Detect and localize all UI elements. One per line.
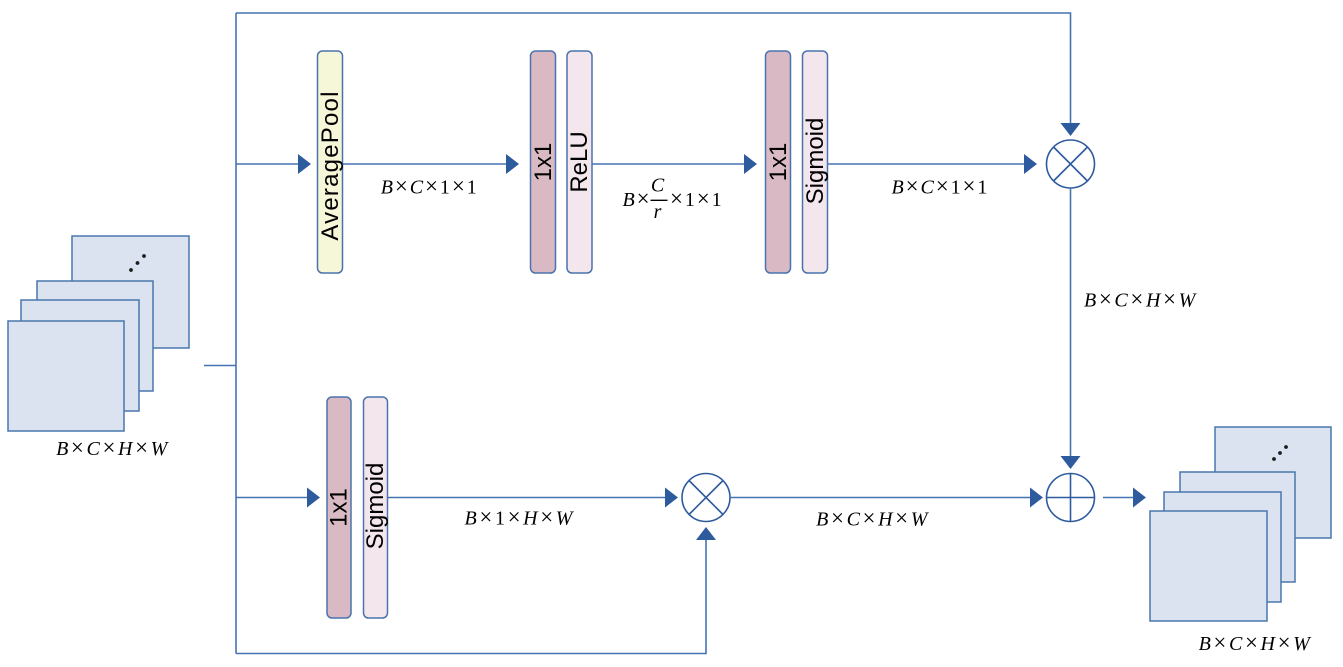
arrowhead into AveragePool <box>298 154 311 174</box>
arrowhead into bottom multiply <box>665 488 678 508</box>
output feature map sheet 3 <box>1164 492 1281 602</box>
svg-text:Sigmoid: Sigmoid <box>802 118 829 205</box>
output stack dots <box>1272 445 1288 461</box>
wire: bottom branch to spatial conv <box>236 497 307 499</box>
svg-text:1x1: 1x1 <box>765 143 792 182</box>
svg-text:B×C×1×1: B×C×1×1 <box>381 174 479 199</box>
svg-text:B×C×1×1: B×C×1×1 <box>891 174 989 199</box>
Sigmoid block (bottom) <box>364 397 388 618</box>
ReLU block <box>567 51 592 273</box>
add node <box>1047 474 1095 522</box>
input feature map front sheet <box>8 321 124 431</box>
svg-text:×1×1: ×1×1 <box>670 186 724 211</box>
multiply node (spatial attention) <box>682 474 730 522</box>
arrowhead into second conv1x1 <box>744 154 757 174</box>
wire: add node to output <box>1103 497 1133 499</box>
input feature map stack (back sheet with dots) <box>72 236 189 348</box>
arrowhead into output stack <box>1133 488 1146 508</box>
svg-text:B×C×H×W: B×C×H×W <box>816 506 930 531</box>
wire: top branch to AveragePool <box>236 163 298 165</box>
label B×C/r×1×1 (fraction) <box>623 175 724 224</box>
conv 1x1 block (top, first) <box>531 51 556 273</box>
wire: ReLU to second conv1x1 <box>592 163 744 165</box>
multiply node (channel attention) <box>1047 140 1095 188</box>
svg-text:ReLU: ReLU <box>566 131 593 192</box>
arrowhead down into add node <box>1061 456 1081 469</box>
svg-text:B×: B× <box>623 186 652 211</box>
svg-text:1x1: 1x1 <box>530 143 557 182</box>
wire: Sigmoid to top multiply <box>828 163 1025 165</box>
conv 1x1 block (top, second) <box>766 51 791 273</box>
input feature map sheet 3 <box>21 300 139 411</box>
wire: top multiply down to add node <box>1070 188 1072 456</box>
svg-text:AveragePool: AveragePool <box>317 90 344 240</box>
output feature map front sheet <box>1150 511 1267 621</box>
wire: bottom multiply to add node <box>730 497 1030 499</box>
input feature map sheet 2 <box>37 281 153 391</box>
AveragePool block <box>318 51 343 273</box>
arrowhead into top multiply <box>1024 154 1037 174</box>
wire: bottom Sigmoid to bottom multiply <box>388 497 666 499</box>
svg-text:C: C <box>651 175 666 197</box>
wire: top rail to multiply node <box>236 13 1071 123</box>
arrowhead down into top multiply <box>1061 123 1081 136</box>
arrowhead into add node (left) <box>1030 488 1043 508</box>
wire: bottom feedback rail <box>236 540 706 654</box>
wire: vertical trunk <box>235 13 237 654</box>
svg-text:r: r <box>654 201 664 223</box>
wire: AveragePool to conv1x1 <box>343 163 507 165</box>
svg-text:B×C×H×W: B×C×H×W <box>1199 630 1313 655</box>
conv 1x1 block (bottom) <box>327 397 351 618</box>
input stack dots <box>129 254 146 272</box>
svg-text:1x1: 1x1 <box>326 488 353 527</box>
svg-text:B×1×H×W: B×1×H×W <box>465 505 575 530</box>
svg-text:Sigmoid: Sigmoid <box>362 463 389 550</box>
Sigmoid block (top) <box>803 51 828 273</box>
arrowhead up into bottom multiply <box>696 527 716 540</box>
svg-text:B×C×H×W: B×C×H×W <box>56 435 170 460</box>
output feature map sheet 2 <box>1180 472 1295 582</box>
output feature map stack (back sheet with dots) <box>1215 427 1331 538</box>
wire: stub from input stack to trunk <box>204 365 236 367</box>
arrowhead into bottom conv1x1 <box>307 488 320 508</box>
svg-text:B×C×H×W: B×C×H×W <box>1084 287 1198 312</box>
arrowhead into conv1x1 <box>506 154 519 174</box>
